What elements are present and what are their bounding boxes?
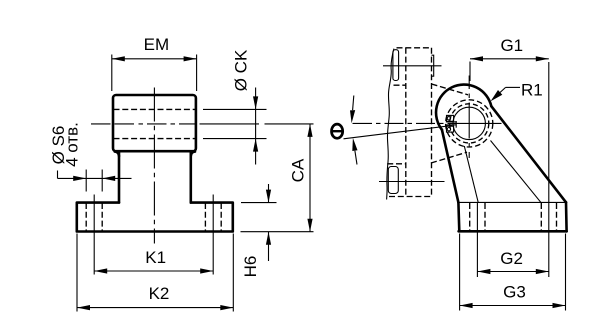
angle theta lower arrow [352,138,357,165]
base left edge [457,202,460,231]
svg-text:K2: K2 [149,284,170,303]
svg-text:K1: K1 [145,248,166,267]
svg-text:R1: R1 [521,81,543,100]
bore horizontal centerline [91,123,314,125]
boss circle dashed inner [450,104,489,143]
plate upper ear tab [393,50,399,81]
body block outline [113,95,196,151]
dimension G2 [477,249,548,274]
svg-text:G2: G2 [500,249,523,268]
svg-text:CA: CA [289,158,308,182]
radius leader R1 [491,81,543,102]
boss circle dashed outer [446,100,493,147]
flange outline [77,203,233,232]
mounting plate hidden right edge [431,48,433,197]
svg-text:EM: EM [144,35,170,54]
bore hidden line upper [114,108,196,110]
dimension K2 [77,234,233,312]
base hole 2 hidden lines [541,203,556,230]
base top edge [458,201,566,203]
mounting plate hidden step lower [387,163,406,165]
svg-text:G3: G3 [503,283,526,302]
dimension H6 [241,184,277,277]
bracket right slant edge [491,106,566,202]
boss vertical centerline [468,76,470,159]
plate upper hole centerline [383,65,442,67]
flange hole 2 centerline [212,195,214,275]
flange hole 1 centerline [93,195,95,275]
web edge line 1 [464,146,478,202]
part vertical centerline [153,88,155,244]
bracket left edge [442,130,459,203]
dimension O CK [203,49,267,164]
plate lower hole centerline [379,181,445,183]
angle theta upper arrow [350,96,355,124]
bore circle [453,107,485,139]
dimension EM [112,35,197,91]
boss horizontal centerline [353,122,502,124]
bore hidden line lower [114,138,196,140]
dimension K1 [94,248,213,274]
neck top fillet left [115,152,119,156]
mounting plate hidden bottom edge [389,196,432,198]
flange hole 2 hidden lines [205,203,221,231]
boss outer arc [436,85,491,130]
svg-text:Ø CK: Ø CK [232,49,251,91]
dimension G3 [460,234,566,311]
mounting plate hidden top edge [397,47,432,49]
neck top fillet right [191,152,195,156]
base hole 2 centerline (extends up as G1 extension) [548,62,550,277]
angle theta line [344,126,453,139]
base hole 1 centerline [476,203,478,277]
svg-text:4 отв.: 4 отв. [62,122,81,167]
plate lower ear tab [388,167,398,194]
web edge line 2 [491,141,541,203]
base bottom edge [459,230,567,233]
angle theta symbol [332,124,343,138]
svg-text:H6: H6 [241,256,260,278]
dimension O S6 4 otv (flange hole) [49,122,131,191]
plate right ear tab [432,55,434,76]
bore clamp slot [446,122,457,125]
neck right edge [190,152,193,203]
flange hole 1 hidden lines [86,203,102,231]
bore clamp tab upper [447,115,454,121]
neck left edge [118,152,121,203]
bore slot edge [455,121,457,128]
mounting plate hidden step upper [394,84,406,86]
mounting plate hidden inner edge [405,48,407,197]
base hole 1 hidden lines [470,203,485,230]
svg-text:G1: G1 [500,36,523,55]
dimension CA [241,124,314,232]
bore clamp tab lower [447,126,454,132]
hidden tangent upper (plate to boss) [432,84,469,95]
mounting plate wavy break edge [387,49,394,200]
hidden tangent lower (plate to boss) [431,152,467,163]
base right edge [565,202,568,231]
dimension G1 [470,36,549,81]
